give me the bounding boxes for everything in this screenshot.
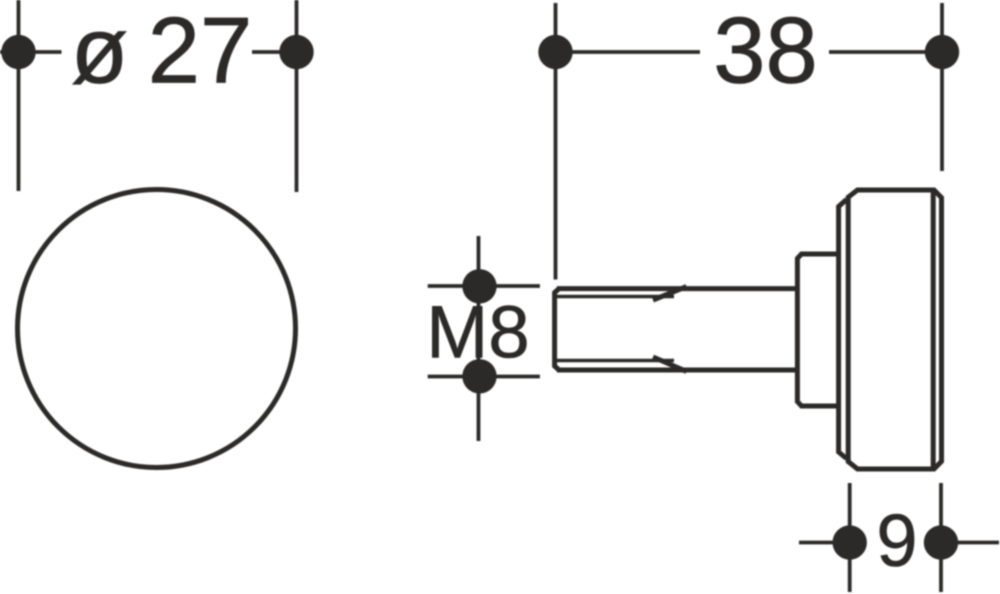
dimension 38 left dot terminator xyxy=(538,35,572,69)
thread runout bottom diagonal xyxy=(653,357,687,371)
thread runout top diagonal xyxy=(653,287,687,300)
dimension 9 left dot terminator xyxy=(833,525,867,559)
dimension D27 right extension line xyxy=(295,0,299,192)
dimension M8 lower witness line xyxy=(428,375,540,379)
svg-text:9: 9 xyxy=(876,499,917,582)
thread minor diameter top line xyxy=(557,295,675,298)
dimension D27 line right segment xyxy=(252,50,297,54)
threaded stem M8 bottom outline xyxy=(557,368,795,373)
collar outline xyxy=(797,254,838,406)
dimension D27 right dot terminator xyxy=(279,35,313,69)
dimension M8 vertical line xyxy=(477,236,481,441)
svg-text:38: 38 xyxy=(713,0,818,103)
threaded stem M8 top outline xyxy=(557,286,795,291)
dimension 38 right dot terminator xyxy=(925,35,959,69)
dimension 9 right dot terminator xyxy=(924,525,958,559)
svg-text:27: 27 xyxy=(148,0,253,103)
threaded stem left end with chamfer xyxy=(555,289,559,370)
knob head front-face bevel edge xyxy=(931,190,936,469)
dimension 38 line right segment xyxy=(829,50,942,54)
svg-text:ø: ø xyxy=(71,0,128,103)
dimension M8 top dot terminator xyxy=(462,269,496,303)
dimension M8 bottom dot terminator xyxy=(462,359,496,393)
dimension 38 left extension line xyxy=(554,3,558,280)
dimension 9 line right segment xyxy=(941,541,999,545)
dimension 9 left extension line xyxy=(848,483,852,592)
knob head back-face edge xyxy=(839,200,847,459)
svg-text:M8: M8 xyxy=(426,291,530,374)
dimension D27 left extension line xyxy=(17,0,21,191)
thread minor diameter bottom line xyxy=(557,359,675,362)
knob head silhouette with chamfered rim xyxy=(848,190,941,469)
dimension 38 line left segment xyxy=(556,50,701,54)
dimension 38 right extension line xyxy=(940,3,944,171)
dimension D27 left dot terminator xyxy=(1,35,35,69)
dimension 9 line left segment xyxy=(799,541,850,545)
knob front view circle (diameter 27) xyxy=(18,190,296,468)
dimension D27 line left segment xyxy=(0,50,62,54)
dimension 9 right extension line xyxy=(939,483,943,592)
dimension M8 upper witness line xyxy=(428,284,540,288)
